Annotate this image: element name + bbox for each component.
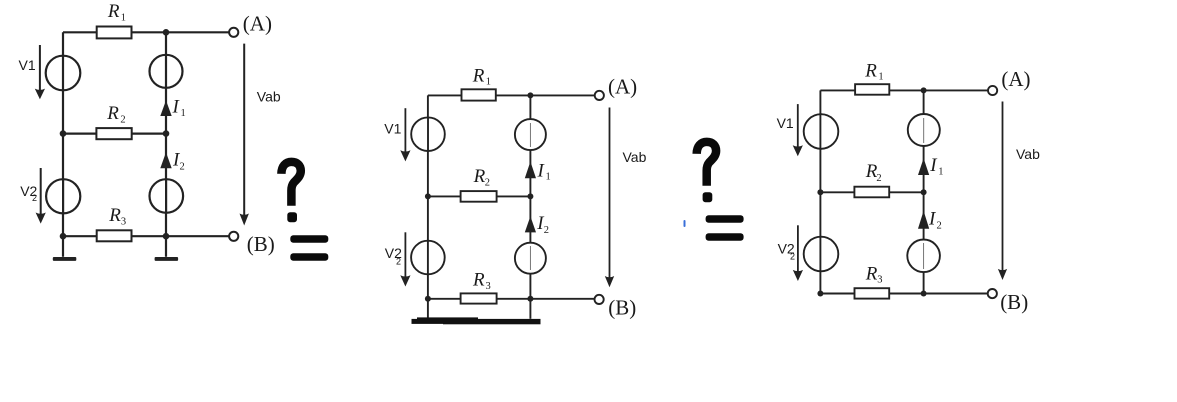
svg-text:3: 3 [486,281,491,292]
svg-text:2: 2 [396,257,401,267]
svg-text:(A): (A) [243,11,272,35]
svg-text:Vab: Vab [1016,146,1040,162]
svg-text:3: 3 [121,217,126,228]
svg-text:(B): (B) [1000,290,1028,314]
svg-text:R: R [473,166,486,187]
svg-text:3: 3 [877,274,882,285]
svg-text:R: R [472,66,485,87]
svg-text:R: R [472,270,485,291]
svg-text:1: 1 [121,13,126,24]
svg-text:2: 2 [790,252,795,262]
svg-text:2: 2 [485,177,490,188]
svg-text:Vab: Vab [623,149,647,165]
svg-text:2: 2 [32,193,37,203]
svg-text:(B): (B) [247,232,275,256]
svg-text:(B): (B) [608,296,636,320]
svg-text:1: 1 [546,172,551,183]
svg-text:1: 1 [938,166,943,177]
svg-text:R: R [865,263,878,284]
svg-text:2: 2 [937,220,942,231]
svg-text:R: R [107,1,120,22]
svg-text:V1: V1 [384,121,401,137]
svg-text:2: 2 [120,115,125,126]
svg-text:(A): (A) [608,75,637,99]
svg-text:R: R [108,205,121,226]
svg-text:(A): (A) [1001,67,1030,91]
svg-text:2: 2 [876,173,881,184]
svg-text:1: 1 [486,77,491,88]
svg-text:R: R [106,103,119,124]
svg-text:2: 2 [544,225,549,236]
svg-text:V1: V1 [777,115,794,131]
svg-text:2: 2 [180,162,185,173]
svg-text:1: 1 [878,72,883,83]
svg-text:V1: V1 [19,57,36,73]
svg-text:R: R [864,61,877,82]
svg-text:1: 1 [181,108,186,119]
svg-text:Vab: Vab [257,89,281,105]
